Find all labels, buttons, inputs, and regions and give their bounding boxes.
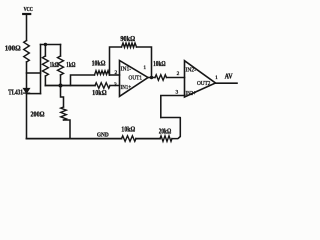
svg-text:GND: GND: [97, 131, 109, 138]
wire: [110, 74, 120, 76]
svg-text:3: 3: [176, 90, 179, 96]
wire: [110, 85, 120, 87]
resistor 20k ohm (rail): [159, 127, 172, 142]
svg-text:OUT1: OUT1: [129, 75, 143, 82]
wire: [26, 62, 28, 88]
wire rail middle: [136, 138, 160, 140]
resistor 10k ohm (rail): [121, 124, 136, 141]
svg-text:10kΩ: 10kΩ: [92, 58, 106, 67]
resistor 10k ohm to IN1-: [92, 58, 110, 75]
wire OUT2: [216, 82, 238, 84]
svg-text:IN2+: IN2+: [186, 90, 197, 97]
svg-text:VCC: VCC: [24, 6, 33, 13]
svg-text:OUT2: OUT2: [197, 80, 211, 87]
svg-text:1: 1: [215, 75, 218, 81]
node VCC: [23, 6, 33, 14]
resistor 10k ohm to IN1+: [92, 83, 110, 97]
svg-text:90kΩ: 90kΩ: [120, 34, 135, 43]
wire OUT1: [148, 77, 155, 79]
svg-text:10kΩ: 10kΩ: [121, 124, 135, 133]
node junction dot: [44, 43, 47, 46]
svg-text:IN2-: IN2-: [186, 67, 196, 74]
svg-text:3: 3: [114, 82, 117, 88]
wire ground rail: [27, 138, 122, 140]
svg-text:IN1+: IN1+: [121, 84, 132, 91]
wire branch to IN1-: [71, 75, 95, 86]
svg-text:2: 2: [114, 70, 117, 76]
svg-text:20kΩ: 20kΩ: [159, 127, 172, 136]
wire divider top edge: [41, 44, 61, 46]
resistor R3 1k ohm: [58, 45, 76, 86]
svg-text:1: 1: [143, 65, 146, 71]
resistor R2 1k ohm: [42, 45, 58, 86]
resistor 10k ohm series: [153, 59, 166, 80]
svg-text:100Ω: 100Ω: [5, 44, 21, 53]
wire to IN2-: [167, 77, 185, 79]
wire divider left edge: [40, 45, 42, 94]
wire IN2+ feed: [161, 96, 185, 118]
resistor 200 ohm: [31, 86, 71, 139]
svg-text:200Ω: 200Ω: [31, 109, 45, 118]
wire: [26, 14, 28, 41]
wire TL431 ref loop bottom: [27, 93, 41, 95]
svg-text:2: 2: [177, 71, 180, 77]
wire IN1+ row: [45, 85, 95, 87]
op-amp U1B: [185, 61, 216, 97]
wire rail right corner up: [161, 118, 181, 139]
node junction dot: [59, 84, 63, 88]
resistor 90k ohm feedback: [110, 34, 152, 78]
node junction dot: [150, 76, 153, 79]
resistor 100 ohm: [5, 41, 30, 63]
wire: [26, 94, 28, 139]
wire TL431 ref loop top: [27, 72, 41, 74]
svg-text:IN1-: IN1-: [121, 66, 132, 73]
svg-text:10kΩ: 10kΩ: [153, 59, 166, 68]
TL431 U2: [8, 89, 29, 97]
svg-text:AV: AV: [225, 73, 233, 81]
op-amp U1A: [120, 61, 149, 97]
svg-text:TL431: TL431: [8, 89, 23, 96]
svg-text:10kΩ: 10kΩ: [92, 88, 107, 97]
svg-text:1kΩ: 1kΩ: [66, 60, 75, 69]
